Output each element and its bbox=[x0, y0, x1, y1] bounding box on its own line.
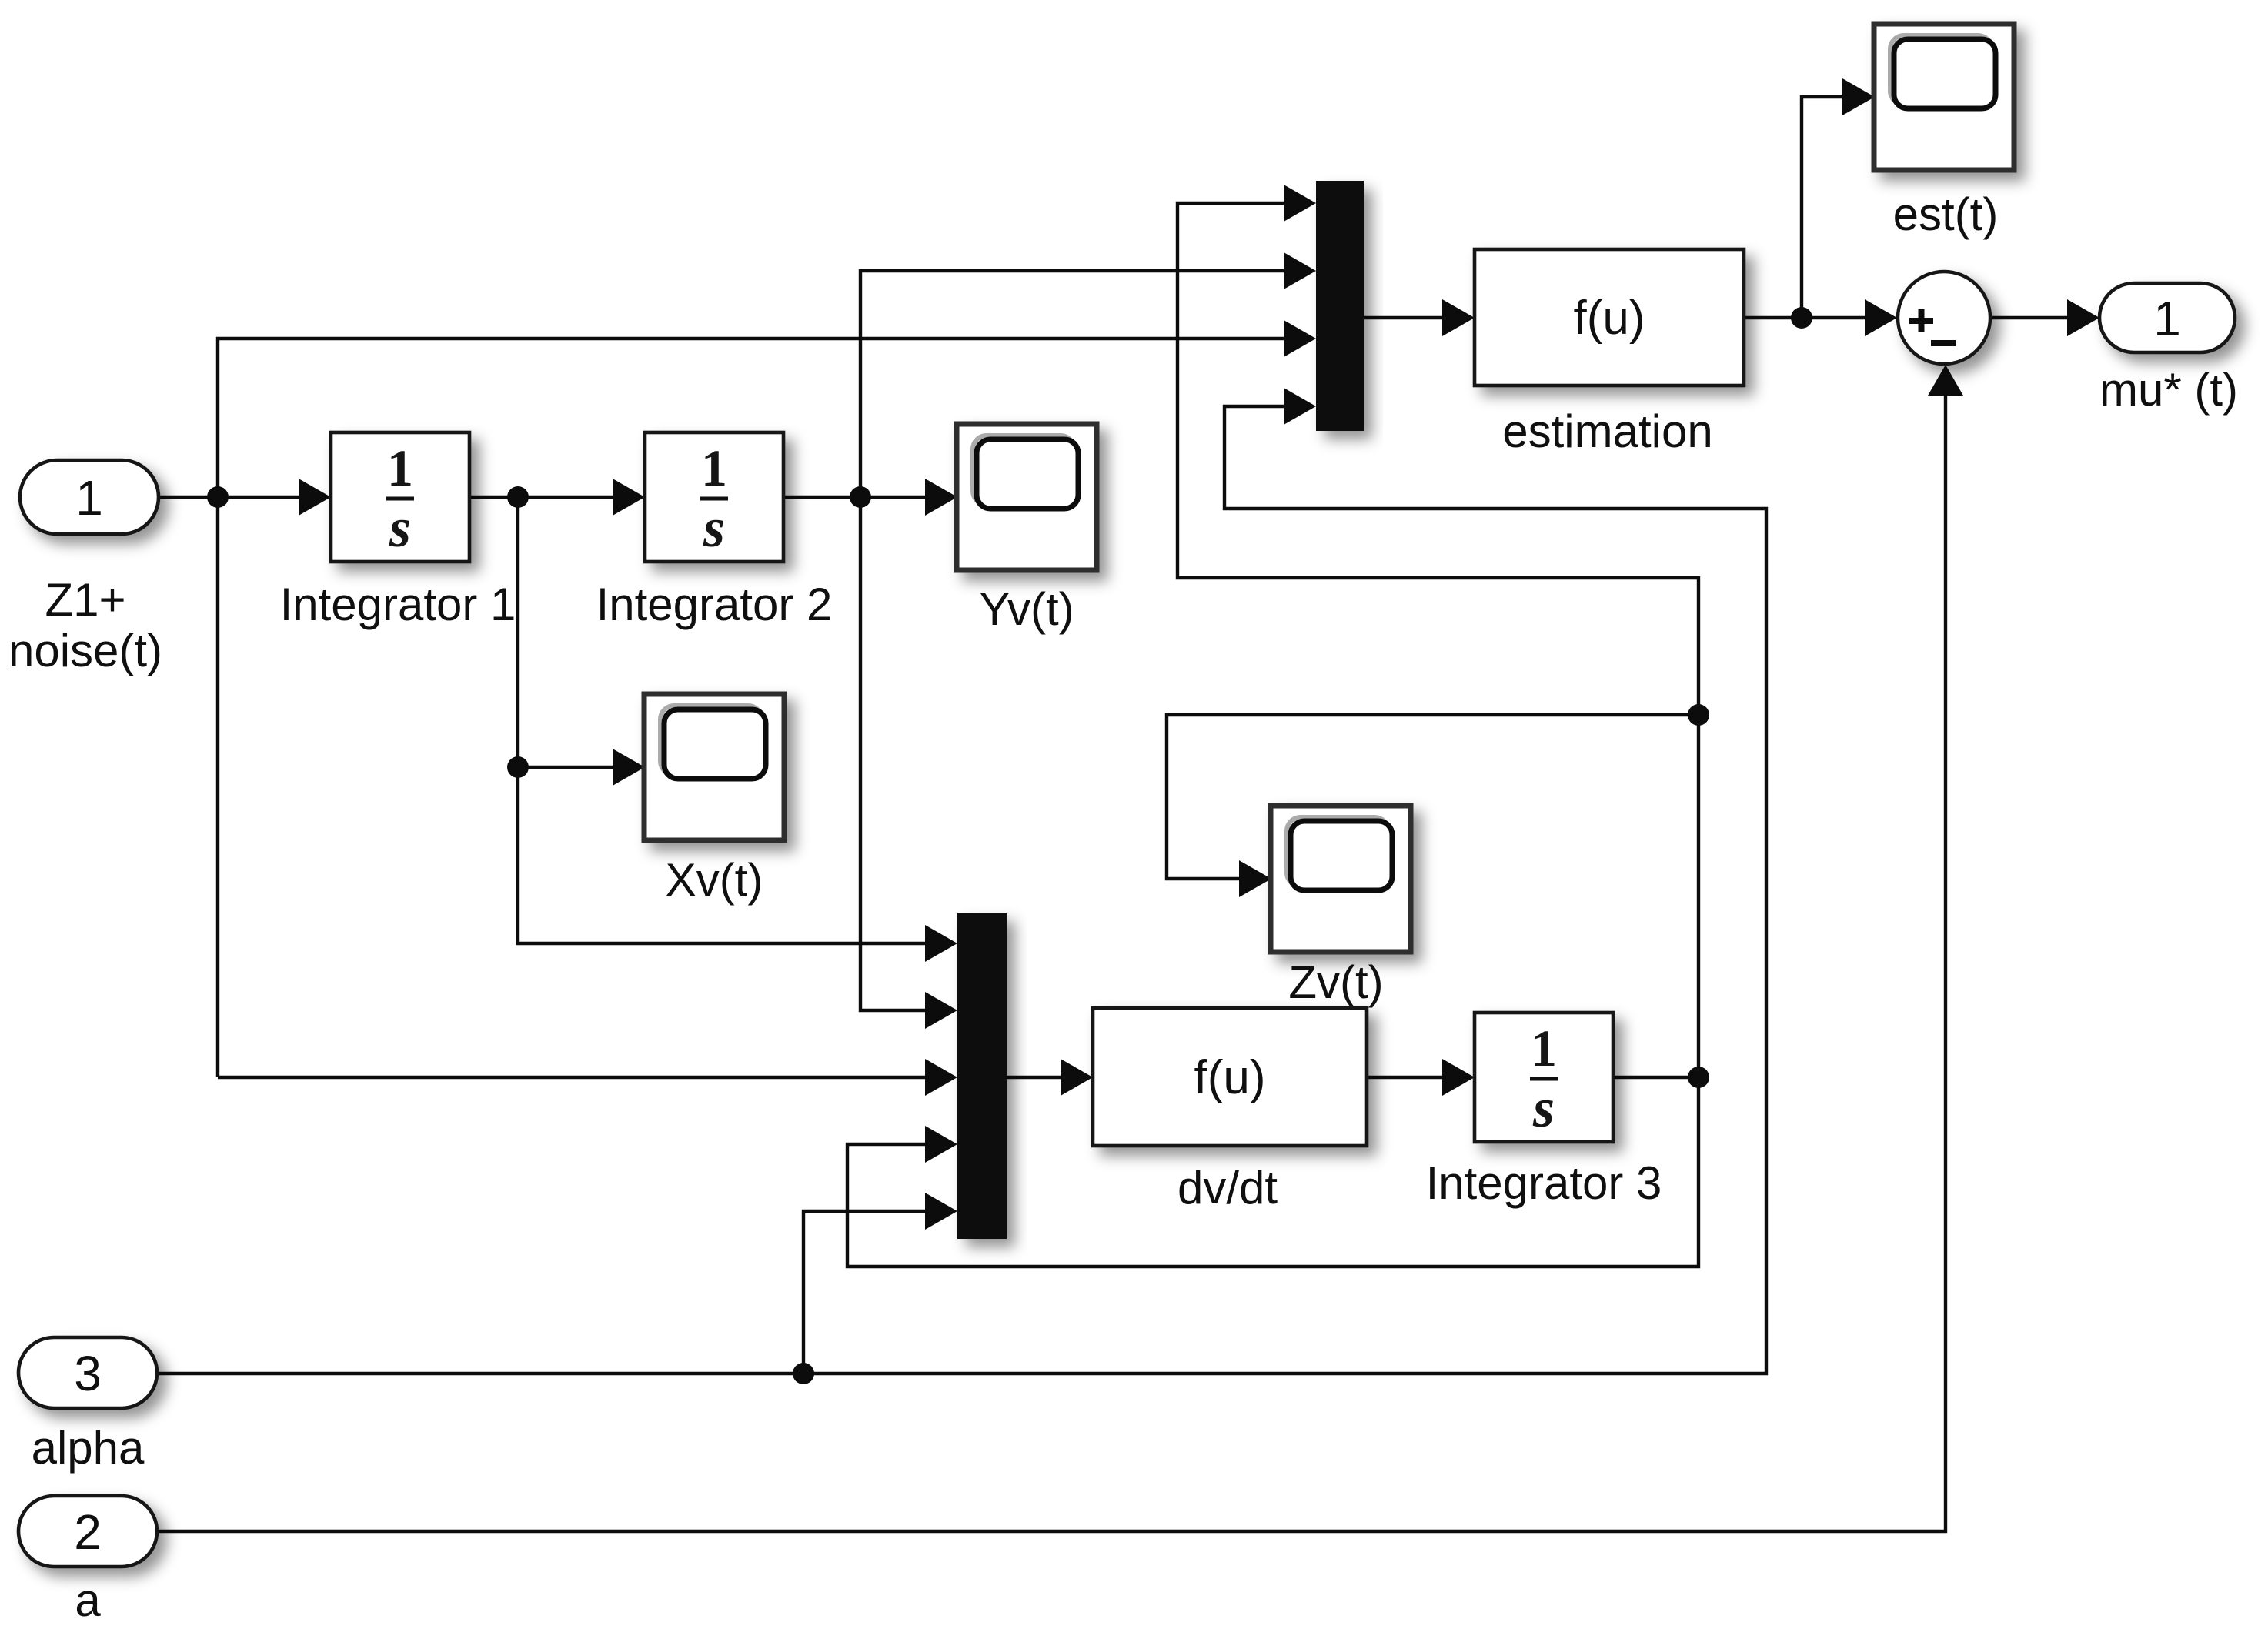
inport 1 Z1+noise(t) bbox=[8, 460, 162, 676]
arrowhead into Integrator 3 bbox=[1442, 1059, 1475, 1096]
wire feedback from Integrator 3 node up and left to Mux1 input 1 bbox=[1177, 203, 1698, 1077]
arrowhead into Integrator 1 bbox=[299, 479, 331, 516]
svg-text:1: 1 bbox=[387, 439, 413, 497]
mux Mux2 bbox=[957, 913, 1007, 1239]
arrowhead into Mux1 input 3 bbox=[1284, 320, 1316, 357]
junction at scope Xv(t) branch bbox=[507, 756, 529, 778]
arrowhead into Mux2 input 4 bbox=[925, 1126, 957, 1163]
arrowhead into estimation block bbox=[1442, 299, 1475, 336]
sum block bbox=[1898, 272, 1990, 364]
svg-text:Integrator 2: Integrator 2 bbox=[596, 579, 833, 630]
wire branch node A (x=283) up-down trunk to Mux1 input 3 and Mux2 input 3 bbox=[218, 339, 1287, 1077]
arrowhead into Mux2 input 2 bbox=[925, 992, 957, 1029]
arrowhead into scope Yv(t) bbox=[925, 479, 957, 516]
integrator block Integrator 2 bbox=[596, 432, 833, 630]
svg-text:a: a bbox=[75, 1574, 101, 1626]
arrowhead into dv/dt block bbox=[1061, 1059, 1093, 1096]
svg-text:1: 1 bbox=[1531, 1019, 1557, 1077]
svg-text:Xv(t): Xv(t) bbox=[666, 854, 763, 906]
wire from estimation output junction up to scope est(t) bbox=[1802, 97, 1845, 318]
wire from Integrator 3 output to feedback node bbox=[1613, 1076, 1698, 1079]
scope Zv(t) bbox=[1271, 806, 1411, 1008]
scope est(t) bbox=[1874, 24, 2014, 240]
svg-text:1: 1 bbox=[75, 470, 103, 526]
arrowhead into Mux1 input 4 bbox=[1284, 388, 1316, 425]
outport 1 mu*(t) bbox=[2099, 283, 2238, 416]
svg-text:s: s bbox=[1532, 1077, 1555, 1139]
integrator block Integrator 3 bbox=[1426, 1013, 1662, 1209]
junction at alpha line bbox=[793, 1363, 814, 1384]
svg-text:s: s bbox=[389, 497, 411, 559]
svg-text:Zv(t): Zv(t) bbox=[1288, 956, 1383, 1008]
junction at estimation output bbox=[1791, 307, 1812, 329]
function block estimation f(u) bbox=[1475, 249, 1744, 457]
wire from inport 1 to Integrator 1 bbox=[159, 496, 302, 499]
arrowhead into scope Xv(t) bbox=[613, 749, 645, 786]
arrowhead into Integrator 2 bbox=[613, 479, 645, 516]
scope Yv(t) bbox=[957, 424, 1097, 635]
wire branch from Integrator 2 output up to Mux1 input 2 and down to Mux2 input 2 bbox=[860, 271, 1287, 1010]
arrowhead into scope Zv(t) bbox=[1239, 860, 1271, 897]
wire feedback from Integrator 3 node down and left to Mux2 input 4 bbox=[847, 1077, 1698, 1267]
svg-text:noise(t): noise(t) bbox=[8, 625, 162, 676]
wire from inport 2 (a) to Sum bottom input bbox=[157, 396, 1946, 1531]
svg-text:Z1+: Z1+ bbox=[45, 574, 125, 626]
junction at inport 1 wire bbox=[207, 486, 229, 508]
inport 2 a bbox=[18, 1496, 157, 1626]
junction at Zv(t) branch bbox=[1688, 704, 1709, 726]
arrowhead into Mux1 input 1 bbox=[1284, 185, 1316, 222]
arrowhead into Sum left input bbox=[1865, 299, 1897, 336]
arrowhead into outport 1 bbox=[2067, 299, 2099, 336]
wire from estimation output to Sum with junction bbox=[1744, 316, 1868, 319]
arrowhead into scope est(t) bbox=[1842, 78, 1875, 115]
mux Mux1 bbox=[1316, 181, 1364, 431]
scope Xv(t) bbox=[644, 694, 784, 906]
arrowhead into Mux2 input 3 bbox=[925, 1059, 957, 1096]
svg-text:alpha: alpha bbox=[32, 1422, 145, 1474]
arrowhead into Mux1 input 2 bbox=[1284, 252, 1316, 289]
svg-text:1: 1 bbox=[701, 439, 727, 497]
wire from Mux1 output to estimation block bbox=[1364, 316, 1445, 319]
inport 3 alpha bbox=[18, 1337, 157, 1474]
wire from Integrator 2 to scope Yv(t) bbox=[783, 496, 928, 499]
arrowhead into Mux2 input 1 bbox=[925, 925, 957, 962]
wire from Integrator 1 to Integrator 2 bbox=[469, 496, 616, 499]
junction at Integrator 1 output bbox=[507, 486, 529, 508]
function block dv/dt f(u) bbox=[1093, 1008, 1367, 1213]
wire branch from feedback node to scope Zv(t) bbox=[1167, 715, 1698, 879]
svg-text:Yv(t): Yv(t) bbox=[979, 583, 1074, 635]
svg-text:Integrator 3: Integrator 3 bbox=[1426, 1157, 1662, 1209]
wire branch from alpha junction up to Mux2 input 5 bbox=[803, 1211, 928, 1374]
wire branch from Integrator 1 output down to scope Xv(t) and Mux2 input 1 bbox=[518, 497, 928, 943]
svg-text:Integrator 1: Integrator 1 bbox=[280, 579, 516, 630]
svg-text:3: 3 bbox=[74, 1346, 102, 1401]
wire from Mux2 output to dv/dt block bbox=[1007, 1076, 1064, 1079]
wire from Sum to outport 1 bbox=[1992, 316, 2070, 319]
svg-text:dv/dt: dv/dt bbox=[1177, 1162, 1278, 1213]
svg-text:1: 1 bbox=[2153, 291, 2181, 346]
svg-text:f(u): f(u) bbox=[1194, 1051, 1266, 1104]
svg-text:mu* (t): mu* (t) bbox=[2099, 364, 2238, 416]
svg-text:f(u): f(u) bbox=[1574, 292, 1645, 345]
wire from dv/dt to Integrator 3 bbox=[1367, 1076, 1445, 1079]
svg-text:2: 2 bbox=[74, 1504, 102, 1560]
svg-text:est(t): est(t) bbox=[1893, 189, 1999, 240]
junction at Integrator 2 output bbox=[850, 486, 871, 508]
integrator block Integrator 1 bbox=[280, 432, 516, 630]
arrowhead into Mux2 input 5 bbox=[925, 1193, 957, 1230]
junction at Integrator 3 output bbox=[1688, 1067, 1709, 1088]
wire from inport 3 (alpha) to Mux1 input 4 bbox=[157, 406, 1766, 1374]
arrowhead into Sum bottom input bbox=[1928, 365, 1963, 396]
svg-text:s: s bbox=[703, 497, 725, 559]
svg-text:estimation: estimation bbox=[1502, 406, 1712, 457]
